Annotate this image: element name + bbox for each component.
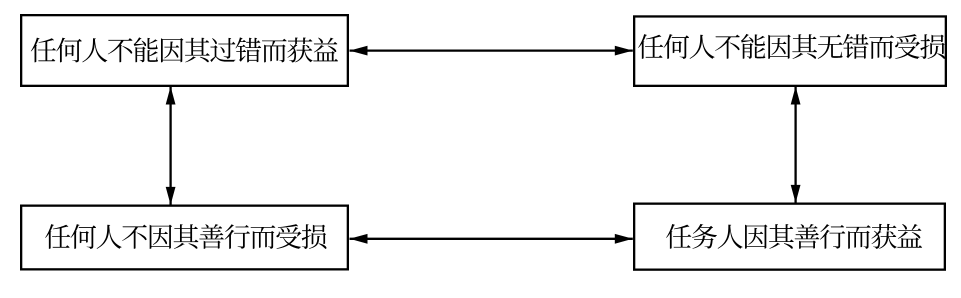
arrow: right vertical double-headed — [794, 87, 796, 203]
text: 任务人因其善行而获益 — [666, 224, 922, 249]
box: bottom-right 任务人因其善行而获益 — [634, 204, 945, 270]
box: top-right 任何人不能因其无错而受损 — [634, 16, 946, 85]
arrow: top horizontal double-headed between top boxes — [350, 49, 633, 51]
arrow: left vertical double-headed — [169, 87, 171, 205]
text: 任何人不因其善行而受损 — [45, 224, 326, 249]
box: bottom-left 任何人不因其善行而受损 — [21, 206, 348, 270]
arrow: bottom horizontal double-headed between bottom boxes — [350, 238, 633, 240]
box: top-left 任何人不能因其过错而获益 — [21, 15, 348, 86]
text: 任何人不能因其过错而获益 — [31, 37, 338, 62]
text: 任何人不能因其无错而受损 — [638, 34, 945, 59]
